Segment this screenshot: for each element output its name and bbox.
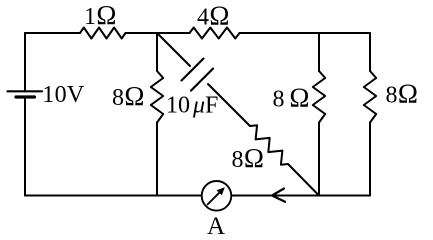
svg-text:10μF: 10μF — [166, 92, 218, 118]
wire right side — [369, 33, 371, 71]
resistor R5 8ohm mid-right — [313, 71, 325, 123]
wire middle upper — [156, 33, 158, 71]
svg-text:A: A — [207, 213, 225, 239]
wire diagonal lower — [288, 164, 319, 196]
svg-text:1Ω: 1Ω — [84, 0, 117, 30]
wire diagonal upper — [157, 33, 190, 66]
wire mid-right upper — [318, 33, 320, 71]
svg-text:8Ω: 8Ω — [112, 81, 145, 111]
wire right-lower — [369, 123, 371, 196]
svg-text:10V: 10V — [42, 82, 85, 108]
wire bottom-left — [25, 195, 202, 197]
battery V1 long plate — [8, 90, 43, 92]
svg-text:4Ω: 4Ω — [197, 1, 230, 31]
capacitor C1 plate 1 — [182, 59, 204, 81]
wire middle lower — [156, 123, 158, 196]
ammeter needle — [208, 190, 222, 204]
current arrow on bottom wire — [272, 189, 285, 202]
svg-text:8Ω: 8Ω — [386, 79, 419, 109]
battery V1 short plate — [16, 95, 35, 98]
resistor R1 1ohm — [80, 28, 126, 39]
wire top-mid — [126, 32, 190, 34]
resistor R3 8ohm middle — [151, 71, 163, 123]
capacitor C1 plate 2 — [191, 69, 213, 91]
resistor R2 4ohm — [190, 28, 240, 39]
wire left-upper — [24, 33, 26, 91]
svg-text:8Ω: 8Ω — [232, 143, 265, 173]
wire top-left — [25, 32, 80, 34]
resistor R6 8ohm right — [364, 71, 376, 123]
wire top-right — [240, 32, 371, 34]
wire mid-right lower — [318, 123, 320, 196]
resistor R4 8ohm diagonal — [250, 125, 288, 164]
svg-text:8Ω: 8Ω — [273, 83, 310, 113]
ammeter A body — [202, 181, 232, 211]
wire diagonal mid — [208, 84, 250, 126]
wire left-lower — [24, 97, 26, 196]
wire bottom-right — [232, 195, 371, 197]
